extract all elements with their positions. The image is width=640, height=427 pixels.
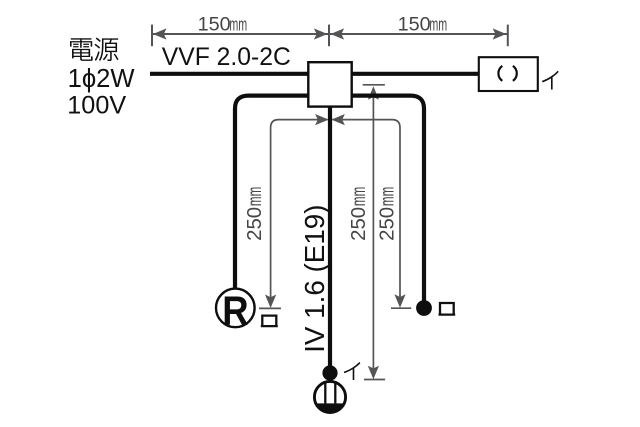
svg-text:mm: mm [349, 187, 370, 206]
svg-text:250: 250 [244, 207, 266, 241]
svg-text:IV 1.6 (E19): IV 1.6 (E19) [299, 204, 330, 352]
svg-text:150: 150 [198, 14, 231, 36]
svg-text:mm: mm [429, 14, 447, 35]
svg-text:mm: mm [378, 187, 399, 206]
svg-text:R: R [222, 289, 248, 334]
svg-text:150: 150 [398, 14, 431, 36]
svg-text:mm: mm [229, 14, 247, 35]
svg-text:100V: 100V [67, 91, 126, 119]
svg-text:VVF 2.0-2C: VVF 2.0-2C [162, 44, 291, 71]
svg-text:mm: mm [245, 187, 266, 206]
svg-text:1ϕ2W: 1ϕ2W [68, 65, 136, 93]
svg-text:250: 250 [377, 207, 399, 241]
svg-text:250: 250 [348, 207, 370, 241]
